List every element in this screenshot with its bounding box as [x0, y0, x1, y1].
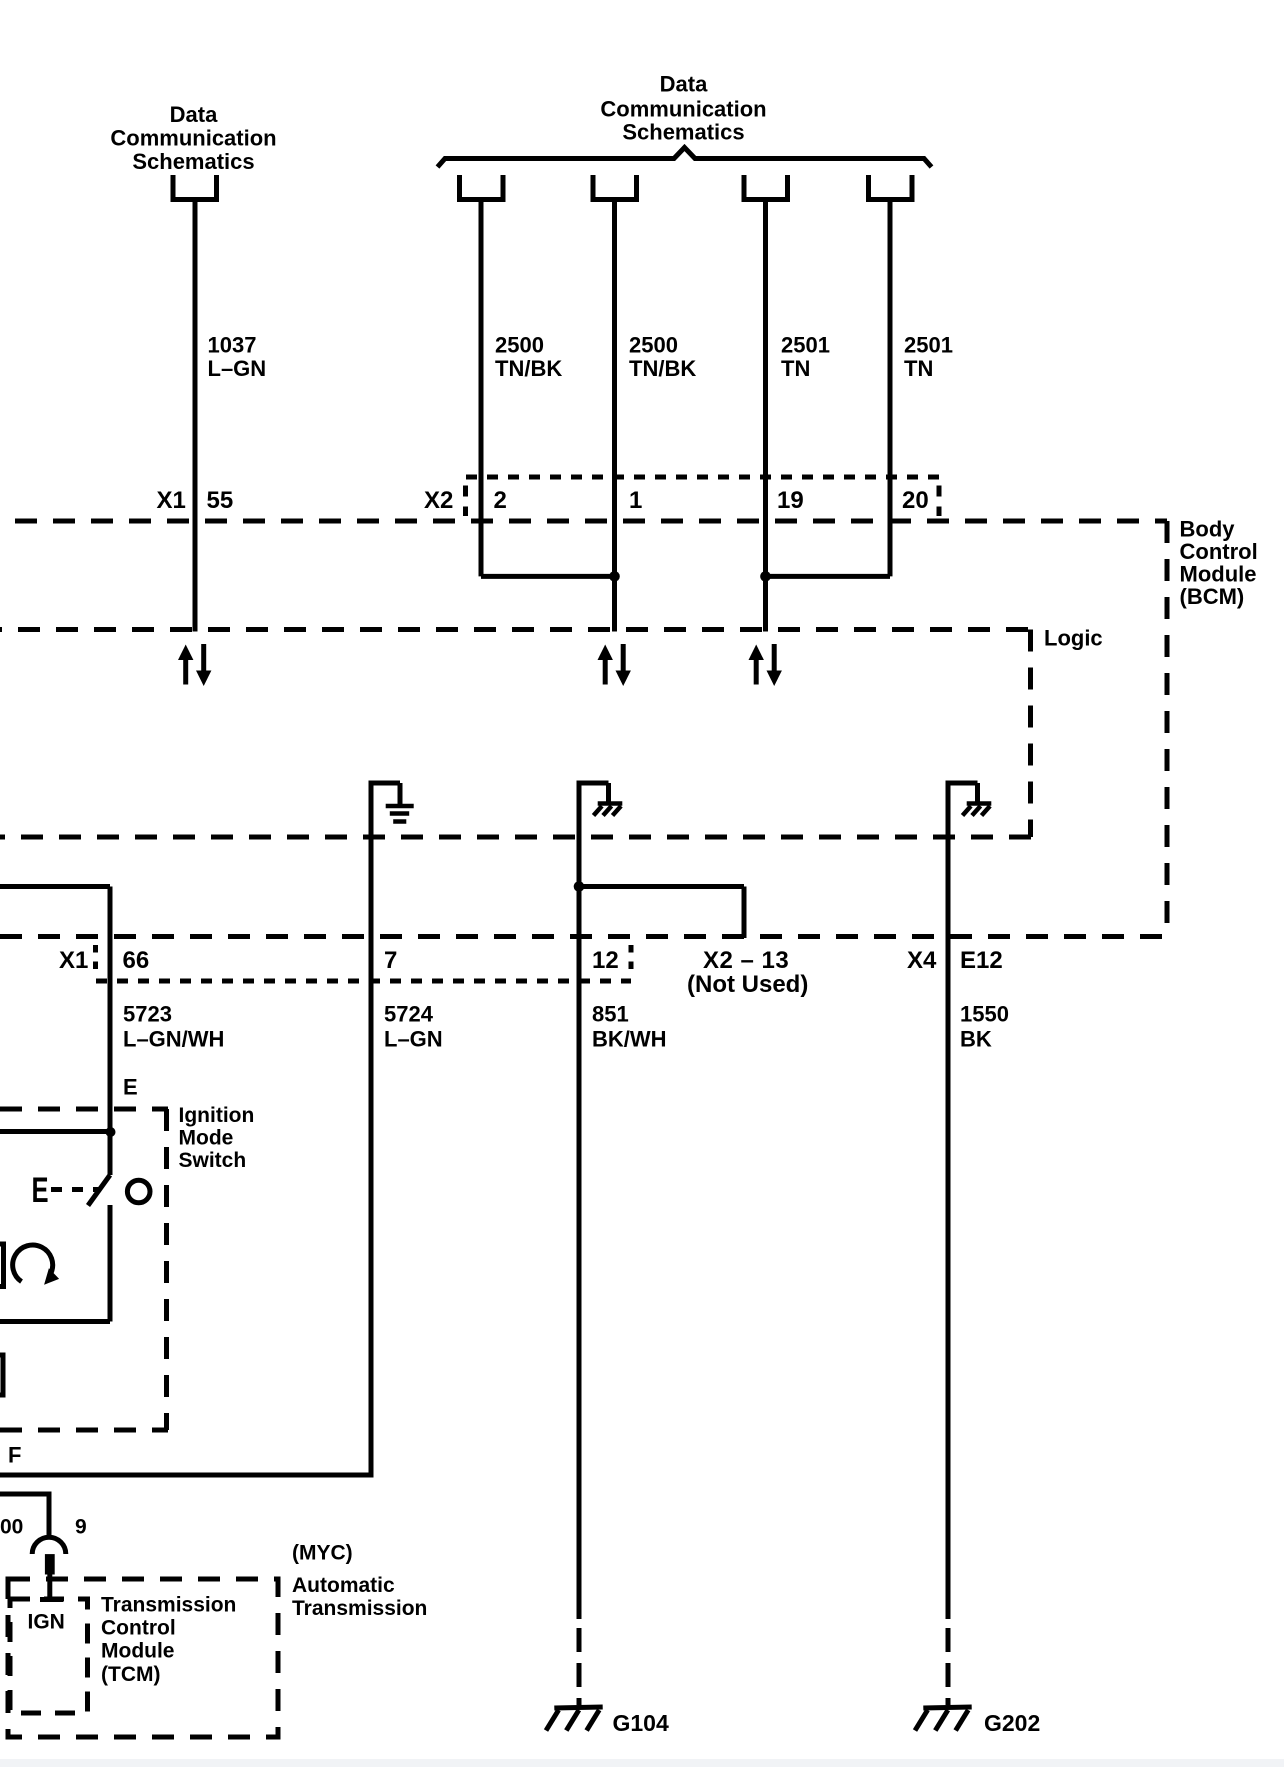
- svg-text:Transmission: Transmission: [101, 1594, 236, 1617]
- svg-text:5724: 5724: [384, 1002, 434, 1027]
- svg-text:Body: Body: [1180, 517, 1236, 542]
- svg-text:7: 7: [384, 947, 397, 974]
- svg-text:G202: G202: [984, 1710, 1040, 1736]
- svg-text:Logic: Logic: [1044, 626, 1103, 651]
- svg-text:X1: X1: [59, 947, 88, 974]
- svg-text:851: 851: [592, 1002, 629, 1027]
- svg-text:9: 9: [75, 1516, 87, 1539]
- svg-text:L–GN/WH: L–GN/WH: [123, 1027, 224, 1052]
- svg-text:66: 66: [123, 947, 150, 974]
- svg-text:19: 19: [777, 487, 804, 514]
- svg-text:2501: 2501: [781, 333, 830, 358]
- svg-text:TN/BK: TN/BK: [629, 356, 696, 381]
- svg-text:G104: G104: [613, 1710, 669, 1736]
- svg-text:TN: TN: [904, 356, 933, 381]
- svg-text:Communication: Communication: [600, 97, 766, 122]
- svg-text:BK/WH: BK/WH: [592, 1027, 667, 1052]
- svg-text:X1: X1: [157, 487, 186, 514]
- svg-text:55: 55: [207, 487, 234, 514]
- svg-text:(TCM): (TCM): [101, 1663, 160, 1686]
- svg-text:Data: Data: [170, 102, 218, 127]
- svg-text:Mode: Mode: [179, 1127, 234, 1150]
- svg-text:Switch: Switch: [179, 1149, 247, 1172]
- svg-text:E12: E12: [960, 947, 1003, 974]
- svg-text:Module: Module: [101, 1640, 175, 1663]
- svg-text:(Not Used): (Not Used): [687, 971, 808, 998]
- svg-text:BK: BK: [960, 1027, 992, 1052]
- svg-text:Ignition: Ignition: [179, 1104, 255, 1127]
- svg-text:2500: 2500: [495, 333, 544, 358]
- svg-text:TN: TN: [781, 356, 810, 381]
- svg-text:Data: Data: [660, 72, 708, 97]
- svg-text:Transmission: Transmission: [292, 1597, 427, 1620]
- svg-text:12: 12: [592, 947, 619, 974]
- svg-text:E: E: [123, 1075, 138, 1100]
- svg-text:Schematics: Schematics: [622, 120, 744, 145]
- svg-text:Control: Control: [101, 1617, 176, 1640]
- svg-text:Communication: Communication: [110, 126, 276, 151]
- svg-text:1037: 1037: [208, 333, 257, 358]
- svg-text:X2 – 13: X2 – 13: [703, 947, 789, 974]
- svg-text:IGN: IGN: [28, 1611, 65, 1634]
- svg-text:L–GN: L–GN: [208, 356, 267, 381]
- svg-text:L–GN: L–GN: [384, 1027, 443, 1052]
- svg-text:2: 2: [494, 487, 507, 514]
- svg-text:20: 20: [902, 487, 929, 514]
- svg-text:Schematics: Schematics: [132, 149, 254, 174]
- svg-text:X4: X4: [907, 947, 937, 974]
- svg-text:F: F: [8, 1443, 21, 1468]
- svg-text:2501: 2501: [904, 333, 953, 358]
- svg-text:X2: X2: [424, 487, 453, 514]
- svg-text:Module: Module: [1180, 562, 1257, 587]
- svg-text:Control: Control: [1180, 539, 1258, 564]
- svg-text:2500: 2500: [629, 333, 678, 358]
- svg-text:(MYC): (MYC): [292, 1542, 353, 1565]
- svg-text:00: 00: [0, 1516, 23, 1539]
- svg-text:5723: 5723: [123, 1002, 172, 1027]
- svg-text:(BCM): (BCM): [1180, 584, 1245, 609]
- svg-text:E: E: [32, 1171, 49, 1210]
- svg-text:1: 1: [629, 487, 642, 514]
- svg-text:Automatic: Automatic: [292, 1574, 395, 1597]
- svg-text:TN/BK: TN/BK: [495, 356, 562, 381]
- svg-text:1550: 1550: [960, 1002, 1009, 1027]
